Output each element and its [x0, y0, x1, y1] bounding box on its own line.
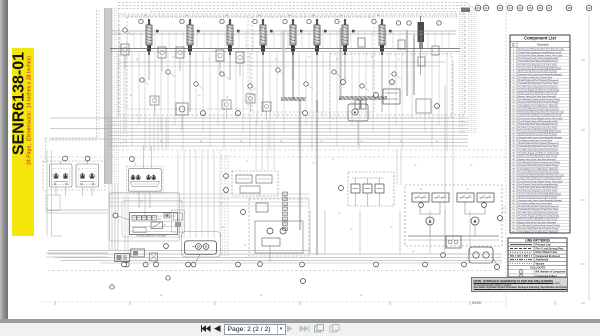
svg-text:1A: 1A: [340, 14, 343, 17]
svg-text:Return Line (Fuel Manifold to: Return Line (Fuel Manifold to Tank Circu…: [518, 218, 557, 221]
svg-text:Bypass Valve (Fuel Filter Base: Bypass Valve (Fuel Filter Base Mounted): [518, 95, 556, 98]
svg-text:Fuel Ratio and Air Inlet Contr: Fuel Ratio and Air Inlet Control Valve: [518, 139, 553, 142]
svg-text:Fuel Pressure Regulator and Or: Fuel Pressure Regulator and Orifice Valv…: [518, 126, 558, 129]
svg-text:Component List: Component List: [524, 36, 556, 41]
svg-text:Check Valve (Fuel Return Manif: Check Valve (Fuel Return Manifold Circui…: [518, 123, 558, 126]
svg-text:Timing Advance Unit (Automatic: Timing Advance Unit (Automatic, Hydrauli…: [518, 230, 558, 233]
svg-text:Pressure Line: Pressure Line: [536, 245, 552, 247]
svg-text:Pressure Relief Valve (Fuel Tr: Pressure Relief Valve (Fuel Transfer Pum…: [518, 227, 558, 230]
svg-text:1234: 1234: [157, 219, 161, 221]
svg-text:7P: 7P: [252, 95, 255, 97]
svg-text:Fuel Priming Pump and Housing: Fuel Priming Pump and Housing Assembly: [518, 183, 558, 186]
svg-text:CALLOUTS: CALLOUTS: [530, 265, 545, 269]
svg-text:Fuel Tank Supply and Return Li: Fuel Tank Supply and Return Line Assembl…: [518, 215, 560, 218]
svg-text:6P: 6P: [160, 295, 163, 297]
svg-text:Fuel Tank Supply and Return Li: Fuel Tank Supply and Return Line Assembl…: [518, 89, 560, 92]
svg-text:Shutoff Solenoid (Fuel System): Shutoff Solenoid (Fuel System) (Energize…: [518, 205, 558, 208]
svg-text:Pressure Sensor (Fuel Manifold: Pressure Sensor (Fuel Manifold) (High Ra…: [518, 192, 561, 195]
svg-text:Shutoff Solenoid (Fuel System): Shutoff Solenoid (Fuel System) (Energize…: [518, 142, 558, 145]
svg-text:9P: 9P: [360, 295, 363, 297]
svg-text:4P: 4P: [154, 97, 157, 99]
svg-text:1P: 1P: [246, 161, 249, 163]
svg-text:1P: 1P: [198, 95, 201, 97]
svg-text:Governor and Control Lever Ass: Governor and Control Lever Assembly (Eng…: [518, 73, 562, 76]
svg-text:7P: 7P: [312, 163, 315, 165]
svg-text:1P: 1P: [470, 165, 473, 167]
svg-text:Component Enclosure: Component Enclosure: [536, 255, 561, 258]
svg-text:9P: 9P: [130, 95, 133, 97]
svg-text:Governor and Control Lever Ass: Governor and Control Lever Assembly (Eng…: [518, 136, 562, 139]
svg-text:Shutoff Solenoid (Fuel System): Shutoff Solenoid (Fuel System) (Energize…: [518, 79, 558, 82]
svg-text:Pressure Relief Valve (Fuel Tr: Pressure Relief Valve (Fuel Transfer Pum…: [518, 101, 558, 104]
svg-text:Fuel Ratio and Air Inlet Contr: Fuel Ratio and Air Inlet Control Valve: [518, 202, 553, 205]
svg-text:2P: 2P: [336, 59, 339, 61]
svg-text:3P: 3P: [412, 251, 415, 253]
svg-text:2P: 2P: [260, 295, 263, 297]
svg-text:Fuel Manifold (Cylinder Head I: Fuel Manifold (Cylinder Head Internal Dr…: [518, 161, 560, 164]
svg-text:Solenoid and Mounting Valve (F: Solenoid and Mounting Valve (Fuel Inject…: [518, 48, 564, 51]
svg-text:Solenoid and Mounting Valve (F: Solenoid and Mounting Valve (Fuel Inject…: [518, 111, 564, 114]
svg-text:Fuel Transfer Pump (Engine Dri: Fuel Transfer Pump (Engine Driven, Gear …: [518, 54, 562, 57]
svg-text:Fuel Pressure Regulator and Or: Fuel Pressure Regulator and Orifice Valv…: [518, 189, 558, 192]
svg-text:Timing Advance Unit (Automatic: Timing Advance Unit (Automatic, Hydrauli…: [518, 104, 558, 107]
svg-text:1A: 1A: [288, 14, 291, 17]
svg-text:Check Valve (Fuel Return Manif: Check Valve (Fuel Return Manifold Circui…: [518, 186, 558, 189]
svg-text:2P: 2P: [244, 245, 247, 247]
svg-text:Pressure Relief Valve (Fuel Tr: Pressure Relief Valve (Fuel Transfer Pum…: [518, 164, 558, 167]
svg-text:Fuel Filter (Secondary Element: Fuel Filter (Secondary Element) (2 Micro…: [518, 85, 558, 88]
svg-text:Return Line (Fuel Manifold to: Return Line (Fuel Manifold to Tank Circu…: [518, 92, 557, 95]
svg-text:Fuel Line (High Pressure) (Pum: Fuel Line (High Pressure) (Pump to Injec…: [518, 107, 559, 110]
svg-text:1P: 1P: [398, 59, 401, 61]
svg-text:Bypass Valve (Fuel Filter Base: Bypass Valve (Fuel Filter Base Mounted): [518, 221, 556, 224]
svg-text:Return Line (Fuel Manifold to: Return Line (Fuel Manifold to Tank Circu…: [518, 155, 557, 158]
svg-text:9P: 9P: [420, 189, 423, 191]
svg-text:Fuel Transfer Pump (Engine Dri: Fuel Transfer Pump (Engine Driven, Gear …: [518, 180, 562, 183]
svg-text:Speed Timing Sensor (Camshaft: Speed Timing Sensor (Camshaft Position): [518, 133, 557, 136]
svg-text:1P: 1P: [332, 159, 335, 161]
svg-text:Attachment: Attachment: [536, 259, 549, 262]
svg-text:Fuel Pressure Regulator and Or: Fuel Pressure Regulator and Orifice Valv…: [518, 63, 558, 66]
svg-text:Pressure Sensor (Fuel Manifold: Pressure Sensor (Fuel Manifold) (High Ra…: [518, 66, 561, 69]
svg-text:Pilot / Load Sensing Pass.: Pilot / Load Sensing Pass.: [536, 247, 565, 250]
svg-text:Governor and Control Lever Ass: Governor and Control Lever Assembly (Eng…: [518, 199, 562, 202]
svg-text:4P: 4P: [222, 227, 225, 229]
svg-text:Solenoid and Mounting Valve (F: Solenoid and Mounting Valve (Fuel Inject…: [518, 174, 564, 177]
svg-text:1A: 1A: [377, 14, 380, 17]
svg-text:Speed Timing Sensor (Camshaft: Speed Timing Sensor (Camshaft Position): [518, 70, 557, 73]
svg-text:Check Valve (Fuel Return Manif: Check Valve (Fuel Return Manifold Circui…: [518, 60, 558, 63]
svg-text:Control Valve (Implement and S: Control Valve (Implement and Steering Ci…: [518, 177, 561, 180]
svg-text:Speed Timing Sensor (Camshaft: Speed Timing Sensor (Camshaft Position): [518, 196, 557, 199]
svg-text:Control Valve (Implement and S: Control Valve (Implement and Steering Ci…: [518, 114, 561, 117]
svg-text:Fuel Filter (Secondary Element: Fuel Filter (Secondary Element) (2 Micro…: [518, 148, 558, 151]
svg-text:1A: 1A: [185, 14, 188, 17]
svg-text:5P: 5P: [220, 203, 223, 205]
svg-text:Bypass Valve (Fuel Filter Base: Bypass Valve (Fuel Filter Base Mounted): [518, 158, 556, 161]
svg-text:Fuel Filter (Secondary Element: Fuel Filter (Secondary Element) (2 Micro…: [518, 211, 558, 214]
svg-text:Fuel Ratio and Air Inlet Contr: Fuel Ratio and Air Inlet Control Valve: [518, 76, 553, 79]
svg-text:1P: 1P: [247, 57, 250, 59]
svg-text:Fuel Manifold (Cylinder Head I: Fuel Manifold (Cylinder Head Internal Dr…: [518, 224, 560, 227]
svg-text:5P: 5P: [350, 229, 353, 231]
svg-text:2P: 2P: [226, 97, 229, 99]
svg-text:Fuel Tank Supply and Return Li: Fuel Tank Supply and Return Line Assembl…: [518, 152, 560, 155]
svg-text:3P: 3P: [172, 57, 175, 59]
svg-text:LINE PATTERNS: LINE PATTERNS: [525, 239, 550, 243]
svg-text:0326: 0326: [472, 300, 482, 305]
svg-text:Fuel Priming Pump and Housing: Fuel Priming Pump and Housing Assembly: [518, 120, 558, 123]
svg-text:Description: Description: [537, 44, 550, 47]
svg-text:7P: 7P: [208, 59, 211, 61]
svg-text:Pressure Sensor (Fuel Manifold: Pressure Sensor (Fuel Manifold) (High Ra…: [518, 129, 561, 132]
svg-text:6P: 6P: [136, 59, 139, 61]
svg-text:3P: 3P: [338, 213, 341, 215]
svg-text:4P: 4P: [414, 165, 417, 167]
svg-text:Ref. Number of Component: Ref. Number of Component: [536, 271, 566, 274]
svg-text:Camshaft (Fuel Injection Pump: Camshaft (Fuel Injection Pump Drive Gear…: [518, 208, 558, 211]
svg-text:Camshaft (Fuel Injection Pump: Camshaft (Fuel Injection Pump Drive Gear…: [518, 145, 558, 148]
svg-text:Camshaft (Fuel Injection Pump: Camshaft (Fuel Injection Pump Drive Gear…: [518, 82, 558, 85]
svg-text:2P: 2P: [275, 59, 278, 61]
svg-text:Fuel Manifold (Cylinder Head I: Fuel Manifold (Cylinder Head Internal Dr…: [518, 98, 560, 101]
svg-text:9P: 9P: [390, 227, 393, 229]
svg-text:Control Valve (Implement and S: Control Valve (Implement and Steering Ci…: [518, 51, 561, 54]
svg-text:Timing Advance Unit (Automatic: Timing Advance Unit (Automatic, Hydrauli…: [518, 167, 558, 170]
svg-text:9P: 9P: [308, 57, 311, 59]
svg-text:1A: 1A: [144, 14, 147, 17]
svg-text:Fuel Priming Pump and Housing: Fuel Priming Pump and Housing Assembly: [518, 57, 558, 60]
svg-text:Drain / Return Lines: Drain / Return Lines: [536, 251, 559, 254]
svg-text:2P: 2P: [466, 189, 469, 191]
svg-text:Fuel Transfer Pump (Engine Dri: Fuel Transfer Pump (Engine Driven, Gear …: [518, 117, 562, 120]
svg-text:Fuel Line (High Pressure) (Pum: Fuel Line (High Pressure) (Pump to Injec…: [518, 170, 559, 173]
svg-text:6P: 6P: [371, 57, 374, 59]
